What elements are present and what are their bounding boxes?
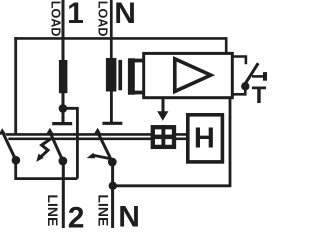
wire: pole N to LINE N terminal	[111, 162, 114, 228]
mechanical linkage bar (double line)	[6, 134, 187, 138]
armature bar of solenoid	[118, 60, 122, 90]
wire: jog from junction A to bottom wire	[63, 107, 77, 179]
wire: top frame (supply loop to amplifier)	[14, 38, 226, 53]
svg-text:LINE: LINE	[45, 194, 61, 226]
yoke fork to amplifier box	[128, 58, 143, 94]
svg-text:T: T	[252, 82, 267, 109]
test switch return stub to amplifier	[232, 86, 245, 94]
solenoid element (pole N block)	[106, 58, 117, 92]
test button actuator line	[252, 75, 263, 78]
wire: terminal 1 top lead	[62, 0, 65, 61]
svg-text:LINE: LINE	[96, 194, 112, 226]
pivot node: test switch	[241, 82, 249, 90]
svg-text:LOAD: LOAD	[95, 1, 109, 37]
wire: pole N fixed-contact lead	[110, 91, 113, 122]
wire: left frame lower + bottom segment	[14, 158, 77, 179]
trip arrow on pole N	[94, 155, 110, 158]
node B: junction on neutral return	[109, 182, 117, 190]
overload element F1 (thermal bimetal, pole 1)	[59, 60, 68, 93]
latch cross vertical bar	[161, 125, 165, 149]
wire: pole 1 to LINE 2 terminal	[62, 161, 65, 228]
svg-text:H: H	[194, 123, 215, 155]
wire: neutral return to amplifier (right/bottom)	[113, 98, 230, 186]
trip zigzag arrow on pole 1	[41, 139, 51, 157]
svg-text:2: 2	[68, 201, 85, 228]
test switch fixed contact stub	[232, 57, 246, 65]
contact bar: pole 1 fixed contact	[52, 122, 72, 125]
switch: pole 1 moving blade	[51, 134, 63, 161]
arrowhead into trip latch	[157, 111, 168, 121]
test switch blade	[245, 63, 259, 84]
svg-text:LOAD: LOAD	[48, 1, 62, 37]
wire: left frame upper segment	[14, 37, 17, 135]
holding relay H box	[188, 115, 223, 162]
node A: junction below bimetal	[59, 104, 68, 113]
pivot node: main lever	[12, 156, 21, 165]
svg-text:N: N	[118, 200, 140, 228]
wire: amplifier output to trip latch	[162, 98, 165, 113]
switch: main lever (left frame) blade	[3, 133, 16, 161]
wire: pole 1 fixed-contact lead	[62, 93, 65, 122]
test button cap	[263, 72, 267, 81]
trip latch (crossed square)	[153, 127, 174, 147]
arrow tip of pole N blade	[94, 128, 102, 135]
contact bar: pole N fixed contact	[102, 122, 122, 125]
amplifier triangle symbol	[175, 59, 211, 92]
pivot node: pole 1	[59, 157, 68, 166]
svg-text:1: 1	[67, 0, 84, 30]
latch cross horizontal bar	[151, 135, 176, 140]
arrow tip of pole 1 blade	[46, 128, 54, 135]
svg-text:N: N	[114, 0, 136, 30]
switch: pole N moving blade	[98, 134, 112, 162]
arrow tip of main lever blade	[0, 128, 6, 134]
pivot node: pole N	[108, 158, 117, 167]
amplifier U1 box	[144, 53, 233, 97]
wire: terminal N top lead	[110, 0, 113, 59]
